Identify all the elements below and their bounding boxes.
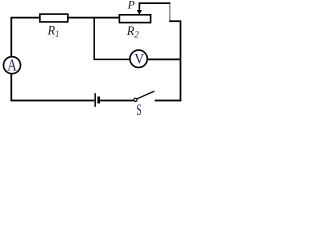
wire: jog to right rail (169, 20, 180, 22)
slider P arrow (wiper) (137, 3, 142, 15)
wire: slider right vertical (gray) (169, 4, 171, 21)
ammeter A (4, 57, 21, 74)
svg-text:P: P (127, 0, 135, 12)
svg-text:V: V (134, 51, 144, 67)
resistor R1 (40, 14, 68, 22)
svg-text:S: S (136, 102, 141, 117)
battery B1: long thin positive plate (94, 93, 96, 107)
wire: voltmeter right to rail (148, 58, 181, 60)
switch S: blade (open) (137, 91, 154, 99)
battery B1: short thick negative plate (97, 97, 100, 104)
voltmeter V (130, 50, 147, 67)
svg-text:A: A (7, 56, 17, 75)
wire: bottom-right + right rail (155, 20, 181, 100)
node: voltmeter tap junction + wire down + wire to voltmeter (94, 18, 129, 60)
wire: slider top horizontal (139, 2, 171, 4)
switch S: pivot contact (134, 98, 137, 101)
wire: left rail lower + bottom wire to battery (11, 74, 94, 100)
wire: battery to switch (100, 100, 133, 102)
wire: top middle segment R1 to R2 (68, 17, 120, 19)
wire: top-left corner (left rail upper + top wire to R1) (11, 18, 40, 57)
svg-text:R1: R1 (47, 24, 60, 39)
svg-text:R2: R2 (126, 24, 139, 39)
resistor R2 (rheostat track) (119, 15, 150, 23)
